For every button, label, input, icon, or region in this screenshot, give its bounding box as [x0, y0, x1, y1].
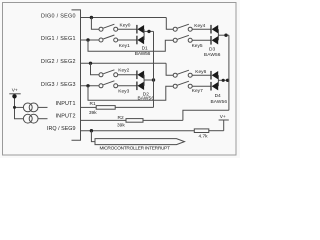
svg-text:4.7k: 4.7k [199, 134, 209, 140]
svg-text:Key1: Key1 [119, 43, 130, 49]
svg-text:DIG1 / SEG1: DIG1 / SEG1 [41, 36, 76, 42]
svg-text:39k: 39k [89, 110, 97, 116]
svg-text:Key2: Key2 [118, 67, 129, 73]
svg-text:Key0: Key0 [120, 23, 131, 29]
svg-text:DIG2 / SEG2: DIG2 / SEG2 [41, 59, 76, 65]
svg-text:V+: V+ [220, 114, 226, 120]
svg-text:BAW56: BAW56 [138, 96, 155, 102]
svg-text:D3: D3 [209, 47, 215, 53]
svg-text:Key5: Key5 [192, 43, 203, 49]
svg-text:39k: 39k [117, 122, 125, 128]
svg-text:V+: V+ [12, 88, 18, 94]
svg-text:INPUT2: INPUT2 [56, 113, 76, 119]
svg-text:MICROCONTROLLER INTERRUPT: MICROCONTROLLER INTERRUPT [100, 146, 171, 152]
svg-text:BAW56: BAW56 [204, 52, 221, 58]
svg-text:BAW56: BAW56 [135, 51, 151, 57]
svg-text:Key7: Key7 [192, 88, 203, 94]
svg-text:Key4: Key4 [194, 23, 205, 29]
svg-text:Key3: Key3 [118, 89, 129, 95]
svg-text:DIG3 / SEG3: DIG3 / SEG3 [41, 82, 76, 88]
svg-text:D4: D4 [215, 93, 221, 99]
svg-text:INPUT1: INPUT1 [56, 101, 76, 107]
svg-text:R1: R1 [90, 101, 96, 107]
svg-text:DIG0 / SEG0: DIG0 / SEG0 [41, 13, 76, 19]
svg-text:IRQ / SEG9: IRQ / SEG9 [47, 126, 76, 132]
svg-text:R2: R2 [118, 115, 124, 121]
svg-text:D1: D1 [142, 46, 148, 52]
svg-text:BAW56: BAW56 [211, 99, 228, 105]
svg-text:Key6: Key6 [195, 69, 206, 75]
